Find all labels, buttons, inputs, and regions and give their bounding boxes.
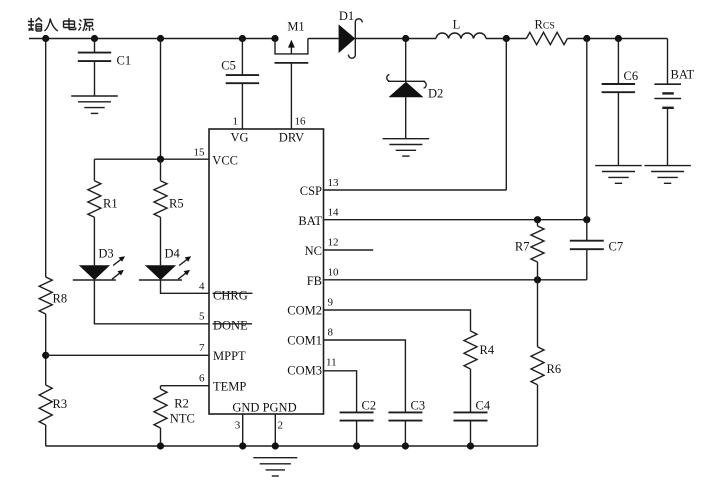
pin 12 label NC (305, 237, 339, 258)
svg-text:NC: NC (305, 244, 322, 258)
svg-text:12: 12 (328, 237, 339, 249)
pin labels GND PGND (232, 401, 296, 415)
wire M1 drain to D1 anode (308, 38, 339, 40)
svg-text:COM2: COM2 (287, 304, 322, 318)
svg-text:3: 3 (235, 419, 241, 431)
node pin 3 rail junction (239, 442, 246, 449)
svg-text:COM1: COM1 (287, 334, 322, 348)
node C2 rail junction (353, 442, 360, 449)
svg-text:15: 15 (194, 147, 206, 159)
svg-text:DRV: DRV (279, 130, 304, 144)
wire pin 3 stub (242, 414, 244, 446)
svg-text:16: 16 (295, 115, 307, 127)
pin 13 label CSP (300, 177, 339, 198)
pin 16 label DRV (279, 115, 306, 144)
svg-text:4: 4 (199, 280, 205, 292)
node CSP junction (503, 35, 510, 42)
wire input rail (29, 38, 275, 40)
pin 6 label TEMP (199, 373, 246, 394)
svg-text:9: 9 (328, 297, 334, 309)
svg-text:M1: M1 (287, 20, 304, 34)
node C6 junction (615, 35, 622, 42)
wire R1 to D3 (93, 217, 95, 265)
pin 15 label VCC (194, 147, 239, 168)
svg-text:8: 8 (328, 327, 334, 339)
wire R5 top lead (160, 159, 162, 181)
ground below C6 (595, 166, 642, 184)
wire TEMP pin 6 (161, 386, 210, 389)
capacitor C5 (221, 39, 259, 130)
node R2 rail junction (157, 442, 164, 449)
svg-text:D4: D4 (165, 247, 181, 261)
resistor R7 (515, 220, 544, 280)
ground below BAT (644, 166, 691, 184)
node C5 junction (239, 35, 246, 42)
wire BAT pin 14 (324, 219, 587, 221)
svg-text:TEMP: TEMP (213, 380, 246, 394)
wire battery sense drop (586, 39, 588, 241)
wire CSP pin 13 to current sense (324, 39, 507, 191)
wire COM2 pin 9 to R4 (324, 310, 471, 331)
svg-text:CHRG: CHRG (213, 289, 248, 303)
svg-text:C4: C4 (476, 399, 491, 413)
battery BAT (654, 39, 694, 166)
wire L to Rcs (486, 38, 526, 40)
pin 5 label DONE (199, 310, 252, 332)
capacitor C6 (602, 39, 638, 166)
svg-text:R1: R1 (103, 196, 118, 210)
wire R1 top lead (93, 159, 95, 181)
node R7 top junction (534, 216, 541, 223)
node C1 junction (91, 35, 98, 42)
pin 14 label BAT (298, 207, 339, 228)
svg-text:11: 11 (326, 357, 337, 369)
svg-text:VCC: VCC (212, 154, 238, 168)
resistor R1 (88, 181, 118, 218)
wire bottom ground rail (46, 445, 538, 447)
wire R2 to bottom rail (160, 428, 162, 446)
svg-text:13: 13 (328, 177, 340, 189)
capacitor C2 (340, 399, 376, 446)
svg-text:CSP: CSP (300, 184, 322, 198)
svg-text:BAT: BAT (671, 68, 695, 82)
svg-text:MPPT: MPPT (213, 349, 246, 363)
svg-text:BAT: BAT (298, 214, 322, 228)
resistor Rcs (526, 18, 567, 45)
wire D3 to DONE pin 5 (94, 280, 209, 324)
svg-text:D3: D3 (98, 247, 113, 261)
resistor R2 NTC (154, 389, 195, 428)
ground below D2 (383, 139, 430, 156)
svg-text:C3: C3 (411, 399, 426, 413)
capacitor C4 (454, 399, 491, 446)
svg-text:R2: R2 (174, 397, 189, 411)
resistor R8 (39, 277, 67, 314)
wire FB pin 10 (324, 279, 587, 281)
svg-text:C1: C1 (117, 54, 132, 68)
net label 输入电源 (input power) (28, 18, 94, 31)
wire left rail upper (45, 39, 47, 278)
svg-text:7: 7 (199, 342, 205, 354)
svg-text:10: 10 (328, 267, 340, 279)
svg-text:FB: FB (307, 274, 322, 288)
svg-text:DONE: DONE (213, 319, 248, 333)
node FB junction (534, 276, 541, 283)
svg-text:C2: C2 (362, 399, 377, 413)
node BAT feedback junction (583, 35, 590, 42)
capacitor C1 (78, 39, 131, 97)
svg-text:RCS: RCS (535, 18, 555, 32)
node M1 source junction (271, 35, 278, 42)
resistor R6 (531, 280, 561, 446)
svg-text:R5: R5 (169, 196, 184, 210)
pin 2 label (278, 419, 284, 431)
inductor L (436, 17, 486, 38)
wire VCC branch drop (160, 39, 162, 160)
svg-text:R6: R6 (547, 362, 562, 376)
svg-text:C5: C5 (221, 58, 236, 72)
transistor M1 (PMOS) (275, 20, 309, 129)
svg-text:L: L (453, 17, 461, 31)
svg-text:1: 1 (233, 115, 239, 127)
wire Rcs to battery rail (567, 38, 667, 40)
wire COM3 pin 11 to C2 (324, 371, 357, 413)
pin 11 label COM3 (287, 357, 336, 378)
node D2 junction (402, 35, 409, 42)
ground main rail (253, 458, 297, 476)
node pin 2 rail junction (272, 442, 279, 449)
diode D2 (Schottky clamp) (387, 39, 444, 139)
pin 3 label (235, 419, 241, 431)
capacitor C3 (388, 399, 425, 446)
svg-text:C7: C7 (609, 240, 624, 254)
node MPPT junction (42, 352, 49, 359)
svg-text:14: 14 (328, 207, 340, 219)
resistor R3 (39, 385, 67, 425)
svg-text:R8: R8 (53, 292, 68, 306)
node VCC branch junction (157, 35, 164, 42)
svg-text:VG: VG (230, 130, 248, 144)
svg-text:NTC: NTC (170, 412, 195, 426)
svg-text:GND PGND: GND PGND (232, 401, 296, 415)
node input junction (42, 35, 49, 42)
pin 8 label COM1 (287, 327, 333, 348)
LED D4 (139, 247, 191, 280)
op-amp U1 charger IC body (209, 129, 324, 414)
wire R3 to bottom rail (45, 425, 47, 446)
svg-text:5: 5 (199, 310, 205, 322)
wire R8 to MPPT node (45, 314, 47, 385)
wire NC pin 12 stub (324, 249, 374, 251)
node C7 top junction (583, 216, 590, 223)
svg-text:D2: D2 (428, 86, 443, 100)
pin 10 label FB (307, 267, 339, 288)
wire R5 to D4 (160, 217, 162, 265)
wire D4 to CHRG pin 4 (161, 280, 210, 293)
svg-text:D1: D1 (339, 9, 354, 23)
diode D1 (Schottky) (339, 9, 363, 58)
resistor R5 (154, 181, 184, 218)
svg-text:R4: R4 (480, 343, 495, 357)
ground below C1 (71, 96, 118, 113)
capacitor C7 (570, 240, 623, 280)
wire VCC pin 15 (94, 158, 209, 160)
wire D1 cathode to L (355, 38, 436, 40)
node VCC junction (157, 156, 164, 163)
svg-text:6: 6 (199, 373, 205, 385)
pin 4 label CHRG (199, 280, 253, 302)
svg-text:2: 2 (278, 419, 284, 431)
pin 7 label MPPT (199, 342, 246, 363)
wire pin 2 stub (274, 414, 276, 446)
svg-text:R7: R7 (515, 240, 530, 254)
svg-text:COM3: COM3 (287, 364, 322, 378)
resistor R4 (464, 331, 495, 412)
svg-text:C6: C6 (624, 69, 639, 83)
node C3 rail junction (402, 442, 409, 449)
svg-text:R3: R3 (53, 397, 68, 411)
wire COM1 pin 8 to C3 (324, 340, 406, 412)
wire MPPT pin 7 (46, 354, 209, 356)
node C4 rail junction (467, 442, 474, 449)
pin 9 label COM2 (287, 297, 333, 318)
pin 1 label VG (230, 115, 248, 144)
LED D3 (73, 247, 125, 280)
